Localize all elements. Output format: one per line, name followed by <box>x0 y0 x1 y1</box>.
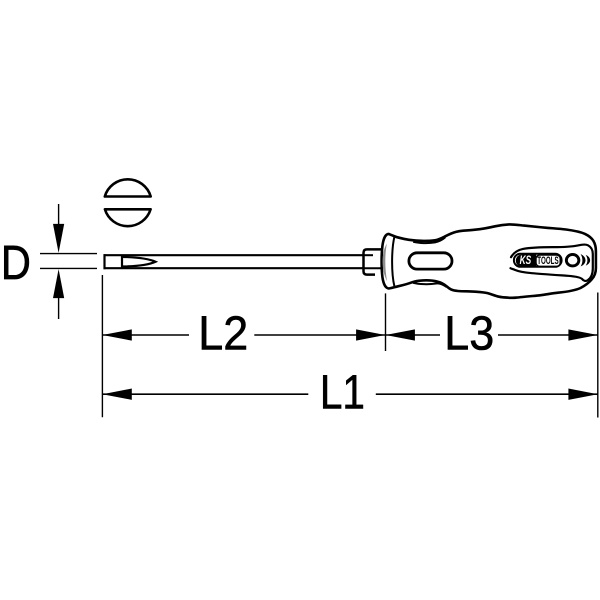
dimension L2: right arrowhead <box>356 329 385 340</box>
dimension D: bottom arrowhead <box>53 269 64 298</box>
handle grip hole (capsule) <box>409 253 452 269</box>
rear cap crescent arc 1 <box>581 254 586 266</box>
dimension D: top arrowhead <box>53 224 64 253</box>
bottom wing inner crescent line <box>413 283 447 287</box>
svg-text:D: D <box>1 235 31 290</box>
dimension D: top extension line <box>40 253 97 255</box>
KS TOOLS logo: TOOLS box <box>536 255 560 266</box>
dimension L1: left arrowhead <box>102 389 131 400</box>
dimension L3: right arrowhead <box>568 329 597 340</box>
dimension L3: line left segment <box>386 334 441 336</box>
svg-text:L1: L1 <box>320 366 365 419</box>
top wing inner crescent line <box>413 237 445 243</box>
svg-text:L2: L2 <box>198 306 248 360</box>
collar inner edge curve <box>392 236 395 286</box>
ferrule hex facet bottom line <box>364 267 382 269</box>
rear cap crescent arc 2 <box>586 255 590 266</box>
dimension D: bottom extension line <box>40 267 97 269</box>
dimension L2: line right segment <box>254 334 385 336</box>
blade end view: upper half of slotted circle <box>105 179 151 196</box>
dimension L1: right arrowhead <box>568 389 597 400</box>
dimension D: bottom arrow leader line <box>58 297 60 319</box>
KS TOOLS logo: black KS field (left stadium end) <box>516 255 536 267</box>
dimension L2: line left segment <box>102 334 189 336</box>
dimension L3: line right segment <box>498 334 598 336</box>
shaft: top line <box>104 254 365 256</box>
collar front shading band <box>383 244 388 282</box>
svg-text:L3: L3 <box>444 306 494 360</box>
blade: tip face divider line <box>121 255 123 268</box>
blade end view: lower half of slotted circle <box>105 209 151 226</box>
dimension L2: left arrowhead <box>102 329 131 340</box>
shaft: bottom line <box>104 267 365 269</box>
dimension D: top arrow leader line <box>58 204 60 226</box>
svg-text:TOOLS: TOOLS <box>537 255 558 267</box>
blade: ground wedge profile <box>122 257 156 267</box>
blade: left end face <box>103 254 105 269</box>
rear grip inset (U-shaped contour) <box>511 245 593 281</box>
handle outline <box>382 224 596 297</box>
dimension L1: line right segment <box>376 393 598 395</box>
KS TOOLS logo: outer stadium outline <box>514 254 562 267</box>
extension line left (blade tip) <box>101 275 103 417</box>
ferrule hex facet top line <box>364 254 374 256</box>
ferrule outline <box>364 249 382 274</box>
extension line middle (handle front) <box>385 293 387 351</box>
dimension L3: left arrowhead <box>386 329 415 340</box>
svg-text:KS: KS <box>520 253 532 267</box>
dimension L1: line left segment <box>102 393 308 395</box>
extension line right (handle end) <box>597 293 599 418</box>
rear cap ring <box>566 254 579 266</box>
